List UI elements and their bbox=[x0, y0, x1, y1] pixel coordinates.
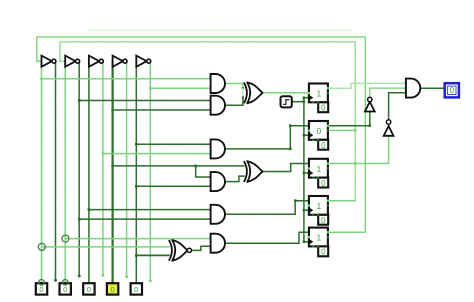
wire branch down to AND G4 input A bbox=[196, 166, 211, 177]
junction IN5/G3a bbox=[135, 143, 138, 146]
wire IN1 to XNOR G9 input A bbox=[42, 246, 169, 248]
junction Q3-W2 bbox=[354, 162, 357, 165]
junction clock/FF5 bbox=[303, 241, 306, 244]
wire FF3 Q to NOT U7 input bbox=[328, 136, 389, 164]
wire IN4 to AND G2 input B bbox=[113, 109, 211, 111]
wire FF5 Q join W1 rail end bbox=[328, 231, 365, 233]
junction /Q2-W2 bbox=[354, 129, 357, 132]
wire column net IN1 (pin P1 up to U1) bbox=[41, 61, 43, 283]
wire end cap /IN2 bbox=[78, 275, 81, 278]
wire AND G4 output to XOR G8 input B bbox=[225, 176, 244, 182]
and-gate G4 bbox=[211, 172, 225, 191]
svg-text:0: 0 bbox=[317, 126, 322, 136]
and-gate G1 bbox=[211, 74, 225, 93]
wire column net IN3 (pin P3 up to U3) bbox=[88, 61, 90, 283]
input pin P2 bbox=[60, 280, 71, 295]
wire AND G5 output to FF4 data bbox=[225, 201, 309, 215]
junction IN5/G4b bbox=[135, 185, 138, 188]
wire AND G6 output to FF5 data bbox=[225, 232, 309, 243]
wire XOR G7 output to FF1 data bbox=[263, 92, 309, 94]
wire column net /IN4 from U4 output bbox=[126, 62, 128, 277]
svg-text:0: 0 bbox=[39, 285, 43, 294]
output pin OUT bbox=[445, 83, 459, 97]
wire IN2 to AND G6 input A bbox=[65, 238, 210, 240]
flip-flop FF5 bbox=[308, 228, 329, 257]
wire end cap /IN1 bbox=[54, 279, 57, 282]
xor-gate G7 bbox=[244, 82, 263, 103]
wire end cap /IN5 bbox=[149, 280, 152, 283]
input pin P3 bbox=[83, 283, 94, 294]
junction IN3/G5a bbox=[88, 208, 91, 211]
wire /IN5 to AND G1 input B bbox=[150, 87, 210, 89]
svg-text:0: 0 bbox=[110, 285, 114, 294]
junction clock/FF4 bbox=[303, 209, 306, 212]
wire NOT U7 output to AND G10 input C bbox=[389, 93, 406, 120]
junction /IN3/G3b bbox=[102, 152, 105, 155]
wire column net /IN5 from U5 output bbox=[149, 62, 151, 281]
inverter U2 bbox=[64, 56, 80, 67]
wire IN1 to AND G1 input A bbox=[42, 78, 211, 80]
wire clock output to rail bbox=[292, 101, 304, 103]
wire clock stub to FF5 bbox=[304, 241, 309, 243]
wire clock rail vertical bbox=[303, 98, 305, 242]
inverter U3 bbox=[88, 56, 104, 67]
clock CLK1 bbox=[281, 96, 292, 107]
junction U6 input elbow bbox=[369, 124, 372, 127]
wire top rail W1 from IN1 to right column bbox=[37, 37, 366, 232]
junction clock/FF3 bbox=[303, 172, 306, 175]
wire column net /IN2 from U2 output bbox=[78, 62, 80, 276]
junction clock T bbox=[303, 100, 306, 103]
wire top rail W2 from IN2 to right column bbox=[60, 42, 355, 201]
wire FF4 Q join W2 rail end bbox=[328, 200, 355, 202]
wire IN5 to AND G4 input B bbox=[136, 185, 210, 187]
wire AND G10 output to pin OUT bbox=[420, 87, 444, 89]
and-gate G2 bbox=[211, 96, 225, 115]
wire AND G3 output to FF2 data bbox=[225, 126, 309, 149]
input pin P4 (selected) bbox=[107, 283, 118, 294]
wire clock stub to FF4 bbox=[304, 209, 309, 211]
svg-text:0: 0 bbox=[321, 248, 326, 257]
wire IN5 to AND G3 input A bbox=[136, 143, 210, 145]
svg-text:1: 1 bbox=[317, 233, 322, 243]
svg-text:1: 1 bbox=[317, 164, 322, 174]
node XOR G7 input B bbox=[242, 96, 244, 98]
wire clock stub to FF1 bbox=[304, 97, 309, 99]
wire column net IN5 (pin P5 up to U5) bbox=[135, 61, 137, 283]
wire IN4 to XOR G8 input A bbox=[113, 165, 244, 167]
wire stub W2 to NOT U2 input bbox=[60, 60, 65, 62]
junction IN1/G1a bbox=[40, 78, 43, 81]
and-gate G6 bbox=[211, 234, 225, 253]
junction /IN5/G1b bbox=[149, 87, 152, 90]
wire IN5 to XNOR G9 input B bbox=[136, 254, 169, 256]
svg-text:0: 0 bbox=[321, 179, 326, 188]
junction G5out corner bbox=[294, 199, 297, 202]
wire clock stub to FF3 bbox=[304, 172, 309, 174]
wire /IN3 to AND G3 input B bbox=[103, 153, 211, 155]
wire XNOR G9 output to AND G6 input B bbox=[191, 246, 211, 250]
input pin P5 bbox=[131, 283, 142, 294]
inverter U7 (facing up) bbox=[384, 120, 394, 136]
xor-gate G8 bbox=[244, 161, 263, 182]
xnor-gate G9 bbox=[169, 240, 192, 261]
junction IN5/XNOR bbox=[135, 254, 138, 257]
junction G3out corner bbox=[289, 124, 292, 127]
svg-text:1: 1 bbox=[317, 201, 322, 211]
wire /IN2 to AND G5 input B bbox=[79, 218, 210, 220]
junction /IN2/G2a bbox=[78, 99, 81, 102]
node XOR G7 input A bbox=[242, 87, 244, 89]
wire FF2 Q to NOT U6 input bbox=[328, 112, 370, 126]
junction IN4/XOR bbox=[111, 165, 114, 168]
and-gate G3 bbox=[211, 139, 225, 158]
wire AND G1 output to XOR G7 input A bbox=[225, 84, 243, 89]
wire stub W1 to NOT U1 input bbox=[37, 60, 42, 62]
wire AND G2 output to XOR G7 input B bbox=[225, 98, 243, 106]
svg-text:0: 0 bbox=[63, 285, 67, 294]
inverter U1 bbox=[40, 56, 56, 67]
svg-text:0: 0 bbox=[321, 104, 326, 113]
wire pale top rail (net IN3?) bbox=[89, 29, 351, 31]
inverter U6 (facing up) bbox=[365, 97, 375, 111]
svg-text:0: 0 bbox=[321, 141, 326, 150]
wire XOR G8 output to FF3 data bbox=[263, 164, 309, 172]
node circle A on net IN1 bbox=[38, 243, 45, 250]
svg-text:1: 1 bbox=[317, 89, 322, 99]
wire clock stub to FF2 bbox=[304, 134, 309, 136]
input pin P1 bbox=[36, 280, 47, 295]
wire end cap /IN4 bbox=[125, 275, 128, 278]
svg-text:0: 0 bbox=[87, 285, 91, 294]
wire FF2 /Q join W2 rail bbox=[328, 129, 355, 131]
junction clock/FF1 bbox=[303, 96, 306, 99]
wire /IN2 to AND G2 input A bbox=[79, 100, 210, 102]
wire NOT U6 output to AND G10 input B bbox=[370, 88, 406, 97]
wire column net IN4 (pin P4 up to U4) bbox=[111, 61, 113, 283]
inverter U4 bbox=[112, 56, 128, 67]
junction /IN2/G5b bbox=[78, 218, 81, 221]
node circle B on net IN2 bbox=[62, 235, 69, 242]
junction clock/FF2 bbox=[303, 134, 306, 137]
and-gate G10 (output) bbox=[406, 79, 420, 98]
junction branch G4a bbox=[194, 165, 197, 168]
junction IN4/G2b bbox=[111, 109, 114, 112]
flip-flop FF1 bbox=[308, 84, 329, 113]
inverter U5 bbox=[135, 56, 151, 67]
wire end cap /IN3 bbox=[101, 274, 104, 277]
wire column net /IN3 from U3 output bbox=[102, 62, 104, 276]
wire column net /IN1 from U1 output bbox=[55, 62, 57, 281]
svg-text:0: 0 bbox=[134, 285, 138, 294]
wire column net IN2 (pin P2 up to U2) bbox=[64, 61, 66, 283]
junction G3out bend bbox=[289, 148, 292, 151]
svg-text:0: 0 bbox=[450, 86, 455, 95]
flip-flop FF2 bbox=[308, 121, 329, 150]
wire FF1 Q jog to AND G10 input A bbox=[328, 83, 406, 88]
flip-flop FF3 bbox=[308, 159, 329, 188]
wire pale link between G7 input nodes bbox=[242, 88, 244, 97]
wire IN3 to AND G5 input A bbox=[89, 209, 211, 211]
svg-text:0: 0 bbox=[321, 216, 326, 225]
and-gate G5 bbox=[211, 205, 225, 224]
flip-flop FF4 bbox=[308, 196, 329, 225]
